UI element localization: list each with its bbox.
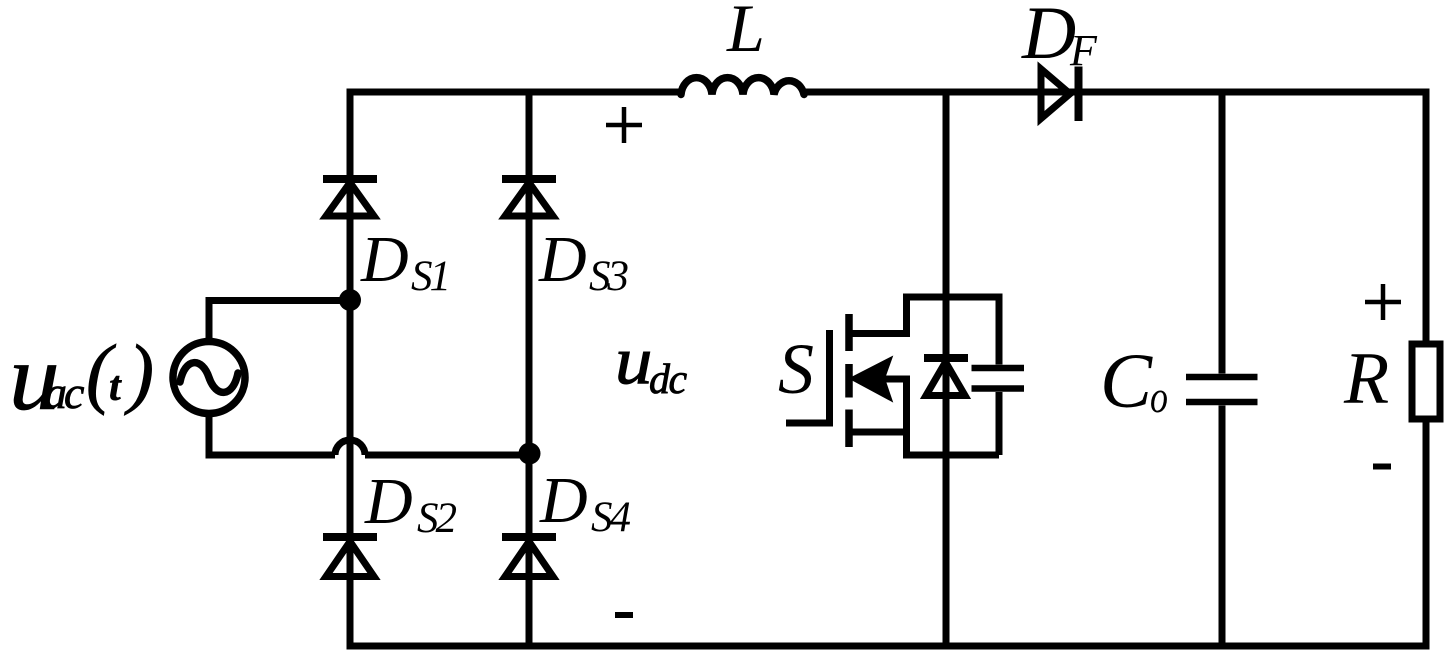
capacitor Co plates [1186,377,1258,402]
wire left bridge leg DS1/DS2 [347,89,354,650]
transistor S body arrow head [851,358,892,401]
AC source sine wave [180,363,238,393]
svg-text:o: o [1150,372,1168,422]
svg-text:S4: S4 [591,494,631,541]
wire AC source bottom lead with hop over DS1 leg [206,414,530,456]
body diode of S [924,358,968,396]
diode DS4 [502,537,556,577]
node junction dot lower (AC to DS3/DS4) [519,443,541,465]
svg-text:u: u [615,323,652,398]
wire MOSFET branch vertical [943,89,950,650]
svg-text:L: L [726,0,765,66]
svg-text:t: t [109,364,122,410]
transistor S source lead [849,376,999,456]
plus sign udc [606,107,642,143]
wire right bridge leg DS3/DS4 [526,89,533,650]
svg-text:D: D [1021,0,1076,75]
snubber capacitor right vertical lower [996,392,1003,455]
wire load branch [1423,89,1430,650]
transistor S body arrow tail [883,376,906,383]
svg-text:R: R [1343,338,1389,420]
wire top rail right segment [804,89,1430,96]
resistor R body [1412,344,1440,419]
svg-text:dc: dc [649,357,688,403]
node junction dot upper (AC to DS1/DS2) [339,289,361,311]
svg-text:D: D [539,464,588,537]
wire top rail left segment [347,89,682,96]
wire AC source top lead [206,301,351,342]
svg-text:F: F [1069,26,1098,75]
svg-text:ac: ac [44,367,84,418]
wire bottom rail [347,643,1430,650]
snubber capacitor plates [972,368,1025,389]
svg-text:D: D [364,465,413,538]
AC source U1 [173,342,245,414]
svg-text:S2: S2 [417,495,457,542]
svg-text:S1: S1 [411,253,448,300]
inductor L [681,78,804,95]
diode DS2 [323,537,377,577]
svg-text:D: D [360,223,409,296]
svg-text:C: C [1100,337,1153,424]
diode DF [1041,67,1079,122]
svg-text:S: S [778,329,814,409]
transistor S gate lead [786,330,830,423]
diode DS3 [502,179,556,216]
wire output capacitor branch [1219,89,1226,650]
transistor S drain lead [849,297,999,334]
diode DS1 [323,179,377,216]
plus sign R [1365,284,1401,320]
svg-text:D: D [538,223,587,296]
transistor S channel segments [845,314,853,447]
minus sign R [1373,464,1391,470]
snubber capacitor right vertical upper [996,294,1003,365]
svg-text:): ) [124,329,154,416]
minus sign udc [615,612,633,618]
svg-text:S3: S3 [589,253,629,300]
